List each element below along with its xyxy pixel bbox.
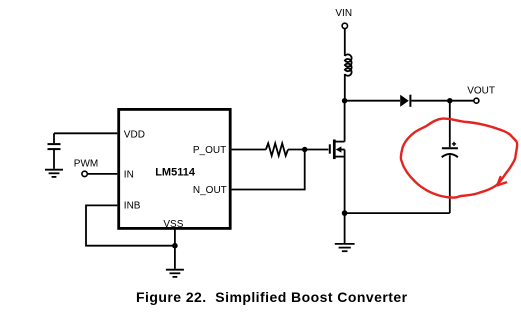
svg-text:IN: IN [124, 169, 134, 180]
svg-text:INB: INB [124, 200, 141, 211]
svg-text:VIN: VIN [335, 8, 352, 19]
svg-text:N_OUT: N_OUT [193, 185, 227, 196]
svg-text:P_OUT: P_OUT [193, 145, 226, 156]
svg-text:VDD: VDD [124, 129, 145, 140]
svg-text:VOUT: VOUT [467, 86, 495, 97]
svg-text:VSS: VSS [163, 219, 183, 230]
svg-text:Figure 22. Simplified Boost C: Figure 22. Simplified Boost Converter [136, 289, 408, 305]
svg-text:LM5114: LM5114 [155, 167, 196, 179]
svg-text:PWM: PWM [74, 158, 98, 169]
